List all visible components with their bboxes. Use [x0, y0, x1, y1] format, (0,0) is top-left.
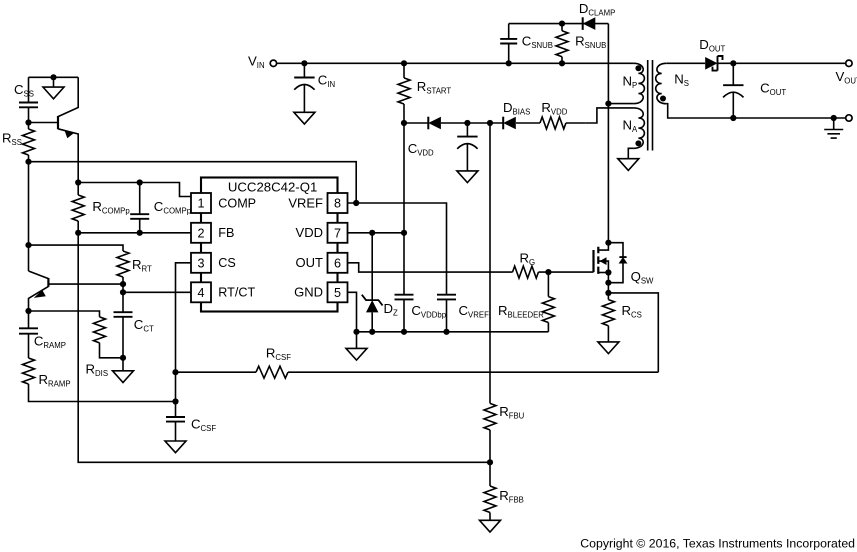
diode DBIAS: [503, 100, 530, 129]
capacitor CVREF: [437, 295, 489, 335]
transistor Q1 soft-start PNP: [29, 77, 79, 182]
pin 5 GND: [294, 282, 347, 302]
resistor RSTART: [398, 60, 451, 104]
resistor RSNUB: [556, 21, 606, 67]
svg-text:Copyright © 2016, Texas Instru: Copyright © 2016, Texas Instruments Inco…: [580, 536, 855, 550]
svg-text:COMP: COMP: [218, 196, 256, 210]
junction gnd rail pin5: [353, 329, 359, 335]
svg-text:CS: CS: [218, 256, 236, 270]
svg-text:VREF: VREF: [288, 195, 323, 210]
resistor RCSF: [176, 346, 659, 379]
resistor RDIS: [86, 317, 124, 378]
ground below CCSF: [165, 441, 186, 453]
resistor RFBU: [484, 403, 525, 486]
svg-text:4: 4: [197, 286, 204, 300]
junction CSS RSS base node: [25, 119, 31, 125]
svg-text:5: 5: [334, 286, 341, 300]
pin 3 CS: [191, 253, 236, 273]
wire COMP rail: [78, 183, 191, 197]
wire pin5 GND to ground rail: [348, 292, 357, 332]
ground below pin5 rail: [346, 332, 367, 360]
junction Q2 emitter node: [25, 308, 31, 314]
ground below CCT: [113, 358, 134, 383]
pin 4 RT/CT: [191, 282, 255, 302]
svg-text:FB: FB: [218, 226, 234, 240]
ground below NA: [618, 159, 639, 171]
junction COMP CCOMPp: [137, 179, 143, 185]
transformer aux polarity dot: [635, 140, 641, 146]
transformer primary winding NP: [623, 63, 645, 103]
junction COMP left: [75, 179, 81, 185]
wire pin4 to RTCT node: [123, 291, 191, 293]
svg-text:1: 1: [197, 197, 204, 211]
capacitor COUT: [723, 60, 786, 121]
junction ground tap: [50, 74, 56, 80]
wire pin3 CS column: [176, 263, 192, 402]
junction DZ bottom: [369, 329, 375, 335]
wire VDD column RSTART to VDD pin and CVDDbp: [403, 104, 405, 295]
wire Q2 emitter row to RDIS: [29, 311, 100, 317]
svg-text:8: 8: [334, 197, 341, 211]
resistor RFBB: [484, 486, 524, 520]
capacitor CCOMPp: [130, 183, 192, 233]
junction switch node: [605, 101, 611, 107]
resistor RVDD: [540, 100, 586, 129]
capacitor CVDDbp: [395, 295, 447, 335]
capacitor CCSF: [166, 402, 216, 442]
wire ground rail: [357, 331, 549, 333]
capacitor CCT: [114, 292, 154, 358]
wire FB rail: [78, 232, 191, 234]
svg-text:3: 3: [197, 256, 204, 270]
pin 2 FB: [191, 223, 234, 243]
svg-text:VDD: VDD: [296, 225, 323, 240]
junction DZ top: [369, 230, 375, 236]
junction VREF pin node: [353, 200, 359, 206]
svg-text:GND: GND: [294, 285, 323, 300]
wire DCLAMP anode down to switch node: [607, 24, 609, 243]
junction QSW sense tap: [605, 290, 611, 296]
ground below CVDD: [457, 171, 478, 183]
pin 1 COMP: [191, 193, 256, 213]
wire VREF to RRT: [29, 245, 124, 251]
wire VREF long rail to pin 8: [29, 162, 357, 203]
capacitor CSNUB: [500, 24, 553, 67]
zener diode DZ: [362, 233, 398, 332]
resistor RRAMP: [23, 358, 176, 402]
capacitor CRAMP: [19, 311, 66, 358]
pin 8 VREF: [288, 193, 347, 213]
transformer secondary winding NS: [656, 63, 689, 103]
svg-text:2: 2: [197, 226, 204, 240]
svg-text:7: 7: [334, 226, 341, 240]
svg-text:UCC28C42-Q1: UCC28C42-Q1: [228, 179, 317, 194]
wire NS bottom to output return: [667, 104, 846, 118]
wire output top rail: [718, 62, 846, 64]
earth ground at output: [824, 115, 843, 138]
junction CS CCSF node: [172, 398, 178, 404]
resistor RSS: [2, 123, 35, 162]
node VIN terminal: [248, 54, 277, 71]
junction gate RBLEEDER: [545, 269, 551, 275]
transformer secondary polarity dot: [660, 96, 666, 102]
resistor RBLEEDER: [498, 272, 554, 332]
junction FB CCOMPp: [137, 230, 143, 236]
wire divider column: [489, 123, 491, 403]
junction VDD column at bias row: [401, 120, 407, 126]
diode DCLAMP: [579, 1, 615, 30]
op-amp-controller U1 UCC28C42-Q1 body: [201, 178, 338, 312]
wire pin6 OUT to RG: [348, 263, 513, 272]
node VOUT terminal: [836, 60, 857, 85]
diode QSW body diode: [608, 243, 627, 283]
junction QSW source stub: [605, 269, 611, 275]
junction CCT ground node: [120, 355, 126, 361]
capacitor CSS: [14, 77, 38, 122]
junction RRT base node: [120, 281, 126, 287]
transformer primary polarity dot: [635, 65, 641, 71]
transformer aux winding NA: [623, 108, 645, 148]
wire NA top to RVDD: [586, 108, 634, 123]
wire top-left ground rail: [29, 76, 79, 78]
wire sense loop to RCSF: [608, 293, 658, 372]
transistor QSW power MOSFET: [594, 243, 655, 300]
junction QSW body diode bottom: [605, 280, 611, 286]
pin 6 OUT: [296, 253, 348, 273]
wire pin7 VDD: [348, 232, 405, 234]
diode DOUT schottky: [699, 37, 725, 70]
diode bootstrap (unlabeled): [427, 117, 429, 130]
ground below RFBB: [480, 520, 501, 532]
resistor RG: [513, 251, 594, 279]
capacitor CIN: [294, 60, 335, 112]
junction CS RCSF node: [172, 369, 178, 375]
wire NS top to DOUT: [667, 62, 706, 64]
node output return terminal: [846, 115, 852, 121]
junction VREF rail RRT tap: [25, 242, 31, 248]
resistor RCOMPp: [72, 183, 130, 233]
junction feedback divider tap: [487, 120, 493, 126]
capacitor CVDD: [408, 120, 478, 171]
resistor RRT: [117, 251, 152, 292]
wire VIN rail to transformer NP top: [277, 62, 634, 64]
junction RTCT pin node: [120, 289, 126, 295]
wire VDD row: [404, 122, 540, 124]
svg-text:OUT: OUT: [296, 255, 324, 270]
junction FB left: [75, 230, 81, 236]
svg-text:RT/CT: RT/CT: [218, 286, 255, 300]
wire left rail VREF node down: [28, 162, 30, 271]
wire NA bottom to ground: [628, 148, 633, 158]
wire VREF to CVREF: [356, 203, 446, 295]
wire snubber top rail: [509, 23, 609, 25]
transistor Q2 ramp PNP: [29, 271, 124, 311]
ground below CIN: [294, 112, 315, 124]
junction VDD pin CVDDbp: [401, 230, 407, 236]
ground top-left: [43, 77, 64, 99]
junction RSS VREF node: [25, 159, 31, 165]
resistor RCS: [602, 300, 641, 342]
junction FB divider mid: [487, 459, 493, 465]
svg-text:6: 6: [334, 256, 341, 270]
wire NP bottom to switch node: [608, 103, 633, 105]
junction QSW drain: [605, 240, 611, 246]
ground below RCS: [598, 342, 619, 354]
wire FB divider vertical: [78, 233, 490, 462]
transformer core: [648, 60, 653, 151]
pin 7 VDD: [296, 223, 348, 243]
